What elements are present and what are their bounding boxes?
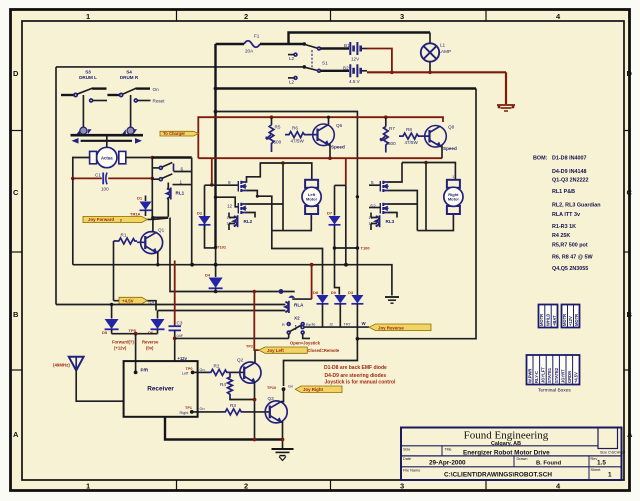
fuse F1 (244, 41, 260, 48)
svg-text:Q6: Q6 (336, 123, 343, 128)
svg-text:D1-D8 IN4007: D1-D8 IN4007 (552, 156, 586, 162)
svg-text:2: 2 (244, 482, 248, 491)
svg-text:LAMP: LAMP (439, 49, 452, 54)
wire big left box (55, 67, 57, 305)
node Q1 drop (190, 263, 194, 267)
wire right bridge top (402, 163, 455, 180)
svg-text:P/R: P/R (141, 368, 149, 373)
svg-text:RL1 P&B: RL1 P&B (552, 189, 575, 195)
node maroon R5 top (270, 115, 274, 119)
svg-text:BOM:: BOM: (533, 156, 548, 162)
node TP5 (134, 332, 138, 336)
wire right midpoint drop (425, 163, 427, 231)
battery B2 4.5V (350, 64, 360, 77)
resistor R6 (285, 132, 309, 138)
wire inner box top (216, 112, 358, 297)
transistor Q6 (313, 124, 335, 146)
drum pawls (77, 129, 81, 134)
ground (maroon) (497, 105, 515, 111)
svg-text:RLA: RLA (294, 303, 304, 308)
svg-text:2: 2 (311, 217, 313, 221)
svg-text:J2: J2 (329, 323, 333, 327)
wire RL1 coil leads (167, 183, 169, 217)
wire source row lower (247, 213, 256, 218)
capacitor C1 (73, 177, 153, 179)
svg-text:R5: R5 (275, 125, 281, 130)
label Joy Forward (83, 216, 148, 222)
svg-text:Sheet: Sheet (591, 468, 602, 472)
wire steer feed 3 (345, 158, 347, 185)
svg-text:Joy Right: Joy Right (303, 387, 324, 392)
red annotation notes (324, 365, 396, 386)
svg-text:A: A (13, 430, 19, 439)
BOM notes list (533, 156, 601, 273)
svg-text:Right: Right (180, 411, 190, 415)
svg-text:Joystick is for manual control: Joystick is for manual control (325, 380, 396, 386)
diode D5 (111, 305, 113, 319)
svg-text:R4: R4 (220, 382, 226, 387)
diode D9 (334, 295, 346, 304)
wire Q8 emitter (441, 147, 443, 159)
svg-text:T101: T101 (217, 245, 227, 250)
svg-text:Forward(?): Forward(?) (112, 340, 134, 345)
relay RL1 contact 6 (152, 167, 159, 169)
wire fuse feed (216, 43, 245, 45)
wire branch up to lamp rail (289, 33, 431, 45)
wire maroon mid rail (198, 157, 442, 159)
wire RL1-1 drop (191, 158, 193, 265)
svg-text:Joy Forward: Joy Forward (88, 217, 114, 222)
wire bridge midpoint drop (282, 163, 284, 231)
svg-text:C:\CLIENT\DRAWINGS\ROBOT.SCH: C:\CLIENT\DRAWINGS\ROBOT.SCH (444, 472, 552, 479)
svg-text:Gn: Gn (288, 385, 293, 389)
svg-text:2: 2 (452, 217, 454, 221)
svg-text:Ile: Ile (312, 323, 316, 327)
switch S4 (107, 94, 119, 96)
terminal block B (562, 305, 580, 328)
drum wheel left (80, 127, 87, 134)
lamp L1 (429, 33, 431, 44)
wire drops to drum (83, 95, 130, 127)
mosfet Q upper-right (369, 180, 389, 192)
svg-text:On: On (153, 87, 160, 92)
wire right drain upper (389, 163, 403, 183)
node pole2 (303, 65, 307, 69)
wire maroon gate drop (211, 158, 213, 185)
node right bridge midpoint (424, 161, 428, 165)
svg-text:2: 2 (244, 12, 248, 21)
switch S4 reset contact (134, 99, 137, 102)
svg-text:C: C (13, 188, 19, 197)
transistor Q3 (265, 401, 287, 423)
wire drum to motor (106, 135, 108, 147)
wire right loop (284, 89, 477, 387)
node gate12 tap (214, 196, 217, 199)
svg-text:File Name: File Name (403, 469, 420, 473)
svg-text:Terminal Boxes: Terminal Boxes (538, 388, 571, 394)
svg-text:D: D (13, 69, 19, 78)
svg-text:y: y (120, 218, 122, 222)
node diode feed (344, 263, 348, 267)
wire drain row upper (247, 163, 312, 182)
wire RL2 leads (229, 213, 235, 231)
svg-text:R6: R6 (292, 126, 298, 131)
switch S1 pole 2 lever (305, 67, 318, 70)
svg-text:D8: D8 (313, 290, 319, 295)
battery B1 12V (350, 42, 360, 55)
resistor R3 (192, 411, 223, 413)
wire box to switch pole 2 (56, 66, 303, 68)
svg-text:1: 1 (311, 175, 313, 179)
svg-text:D9: D9 (331, 290, 337, 295)
wire R4 bottom (230, 398, 255, 400)
svg-text:B2: B2 (343, 65, 349, 70)
resistor R8 (399, 133, 423, 139)
svg-text:S3: S3 (85, 70, 91, 75)
svg-text:D: D (627, 69, 633, 78)
svg-text:5: 5 (371, 180, 374, 185)
wire bottom bus (165, 417, 283, 440)
actuator motor (97, 147, 117, 167)
svg-text:500: 500 (274, 140, 282, 145)
wire R3 to Q3 base (244, 411, 270, 413)
wire +4.5V row (114, 301, 157, 311)
svg-text:4.5 V: 4.5 V (349, 79, 361, 84)
svg-text:+4.5V: +4.5V (574, 372, 579, 383)
switch S1 pole 1 lever (305, 45, 318, 49)
ground G1 (385, 297, 399, 303)
wire motor right (126, 157, 153, 159)
svg-text:Date: Date (403, 457, 411, 461)
svg-text:Actua: Actua (101, 156, 113, 161)
svg-text:JOYRT: JOYRT (560, 369, 565, 383)
svg-text:D4: D4 (205, 273, 211, 278)
diode D4 (215, 248, 217, 278)
wire +V rail down to ground (maroon) (505, 72, 507, 104)
diode D1 (145, 196, 147, 202)
wire Q6 collector (328, 117, 330, 124)
svg-text:D1-D8 are back EMF diode: D1-D8 are back EMF diode (324, 365, 387, 371)
svg-text:R2: R2 (214, 364, 220, 369)
svg-text:1.5: 1.5 (597, 459, 606, 466)
svg-text:A: A (627, 430, 633, 439)
svg-text:STATE2: STATE2 (554, 367, 559, 383)
svg-text:GRDN: GRDN (567, 371, 572, 383)
svg-text:L2: L2 (289, 79, 295, 84)
wire TP5 to receiver (135, 334, 137, 373)
svg-text:F1: F1 (254, 34, 260, 39)
wire main vertical feed (214, 44, 216, 248)
svg-text:Energizer Robot Motor Drive: Energizer Robot Motor Drive (463, 449, 550, 456)
wire Q2 emitter chain (254, 383, 257, 440)
label Joy Left (259, 347, 308, 353)
svg-text:1: 1 (608, 471, 612, 478)
svg-text:DRUM R: DRUM R (120, 75, 139, 80)
svg-text:C1: C1 (95, 173, 101, 178)
svg-text:Gn.: Gn. (200, 368, 206, 372)
terminal block A (539, 305, 558, 328)
svg-text:TP5: TP5 (129, 328, 137, 333)
svg-text:(49MHz): (49MHz) (53, 363, 70, 368)
svg-text:B1: B1 (344, 43, 350, 48)
svg-text:Motor: Motor (448, 197, 460, 202)
relay RL1 contact 1 (152, 178, 159, 180)
label Joy Reverse (369, 324, 431, 331)
svg-text:RLA ITT 3v: RLA ITT 3v (552, 212, 580, 218)
svg-text:Q3: Q3 (268, 396, 275, 401)
svg-text:Drawn: Drawn (517, 457, 528, 461)
wire steer feed 2 (D7 chain) (335, 225, 340, 295)
node fuse-switch (303, 42, 307, 46)
resistor R2 (193, 371, 208, 373)
svg-text:+12V: +12V (568, 316, 573, 326)
wire joy forward row (148, 217, 169, 219)
mosfet Q upper-left (228, 180, 247, 192)
svg-text:S1: S1 (322, 61, 328, 66)
resistor R1 (114, 238, 138, 244)
svg-text:TP1: TP1 (185, 406, 192, 410)
svg-text:STATE1: STATE1 (547, 367, 552, 383)
svg-text:(+12v): (+12v) (114, 346, 127, 351)
capacitor C3 (174, 261, 176, 326)
svg-text:Q8: Q8 (448, 125, 455, 130)
wire motor bottom loop (272, 214, 312, 231)
wire motor bus to corner (152, 156, 191, 158)
label Joy Right (295, 386, 342, 393)
wire maroon drop from mid rail (311, 265, 313, 299)
relay RL3 coil (376, 216, 379, 226)
wire gate 9 line (205, 184, 239, 186)
svg-text:D4-D9 are steering diodes: D4-D9 are steering diodes (325, 373, 387, 379)
wire Q6 emitter (329, 145, 331, 157)
svg-text:Size: Size (403, 448, 410, 452)
svg-text:R3: R3 (230, 403, 236, 408)
label +4.5V (119, 297, 147, 304)
svg-text:Left: Left (182, 371, 189, 375)
svg-text:Reset: Reset (153, 99, 166, 104)
svg-text:R7: R7 (389, 126, 395, 131)
svg-text:TR1A: TR1A (130, 212, 141, 217)
wire T101 link (205, 185, 216, 248)
svg-text:Title: Title (445, 447, 452, 451)
svg-text:L1: L1 (440, 43, 446, 48)
wire maroon top rail (198, 117, 443, 158)
svg-text:C: C (627, 188, 633, 197)
svg-text:B: B (13, 310, 19, 319)
drum travel bar with arrows (81, 140, 132, 142)
svg-text:R6, R8 47 @ 5W: R6, R8 47 @ 5W (552, 255, 594, 261)
left motor (302, 175, 321, 221)
svg-text:MOTR: MOTR (539, 314, 544, 326)
svg-text:D5: D5 (102, 330, 108, 335)
svg-text:Gn: Gn (200, 407, 205, 411)
node maroon R7 top (384, 115, 388, 119)
svg-text:L2: L2 (289, 56, 295, 61)
svg-text:R4 25K: R4 25K (552, 233, 570, 239)
svg-text:Motor: Motor (306, 197, 318, 202)
svg-text:1: 1 (86, 12, 90, 21)
drum wheel right (127, 127, 134, 134)
svg-text:1: 1 (452, 175, 454, 179)
diode D6 (157, 311, 159, 319)
svg-text:9: 9 (228, 180, 231, 185)
diode D8 (317, 295, 329, 304)
svg-text:Reverse: Reverse (142, 340, 159, 345)
svg-text:DRUM L: DRUM L (79, 75, 97, 80)
svg-text:Receiver: Receiver (147, 386, 174, 393)
svg-text:MOTR: MOTR (562, 314, 567, 326)
svg-text:Calgary, AB: Calgary, AB (491, 441, 521, 447)
svg-text:TR7: TR7 (344, 323, 351, 327)
mosfet Q lower-right (369, 203, 389, 214)
transistor Q1 (141, 232, 163, 254)
svg-text:JOYLFT: JOYLFT (541, 367, 546, 383)
svg-text:Speed: Speed (331, 145, 345, 150)
svg-text:+4.5V: +4.5V (122, 299, 134, 304)
drum bar (71, 134, 144, 137)
label To Charger (160, 131, 199, 136)
svg-text:B. Found: B. Found (536, 460, 562, 466)
right motor (444, 175, 463, 221)
relay RLA contact (279, 290, 282, 293)
wire Q1 emitter (157, 253, 158, 265)
svg-text:RL1: RL1 (176, 191, 185, 196)
node left bridge midpoint (281, 161, 285, 165)
svg-text:D7: D7 (327, 211, 333, 216)
svg-text:RL3: RL3 (386, 219, 395, 224)
node y88 (214, 87, 218, 91)
wire switch to battery B2 (321, 70, 350, 72)
svg-text:WHLD: WHLD (546, 314, 551, 326)
relay RL1 coil (167, 189, 170, 199)
svg-text:D4-D9 IN4148: D4-D9 IN4148 (552, 169, 586, 175)
svg-text:Q1: Q1 (158, 228, 165, 233)
wire Q3 emitter (281, 422, 283, 448)
svg-text:TP10: TP10 (267, 386, 276, 390)
svg-text:Q2: Q2 (237, 358, 244, 363)
svg-text:D2: D2 (197, 211, 203, 216)
svg-text:R8: R8 (406, 127, 412, 132)
svg-text:20A: 20A (245, 49, 254, 54)
svg-text:29-Apr-2000: 29-Apr-2000 (429, 460, 466, 467)
terminal block C (527, 355, 580, 394)
svg-text:Joy Left: Joy Left (267, 348, 284, 353)
svg-text:Joy Reverse: Joy Reverse (378, 325, 404, 330)
title block (401, 428, 625, 481)
svg-text:3: 3 (400, 482, 404, 491)
svg-text:C3: C3 (177, 321, 183, 326)
ground G2 (272, 449, 294, 461)
wire Q1 collector (152, 218, 154, 232)
wire motor left (73, 158, 90, 178)
svg-text:MOTR: MOTR (574, 314, 579, 326)
wire source/drain mid row (247, 191, 284, 231)
wire fuse to switch (260, 43, 303, 45)
switch S3 (61, 94, 74, 96)
svg-text:6: 6 (181, 167, 184, 172)
diode D7 (334, 185, 336, 215)
svg-text:04F: 04F (177, 334, 184, 338)
svg-text:B: B (627, 310, 633, 319)
wire switch to battery B1 (321, 47, 350, 49)
svg-text:W.PWR: W.PWR (527, 369, 532, 383)
svg-text:R1: R1 (121, 233, 127, 238)
wire right motor loop (417, 214, 453, 231)
svg-text:D3: D3 (348, 290, 354, 295)
resistor R4 (228, 372, 233, 397)
svg-text:R: R (282, 323, 285, 327)
mosfet Q lower-left (227, 203, 247, 214)
wire Q1 emitter rail to gate row (157, 264, 159, 266)
svg-text:(0v): (0v) (146, 346, 154, 351)
svg-text:S4: S4 (126, 70, 132, 75)
diode D2 (199, 216, 211, 225)
svg-text:Q4,Q5 2N3055: Q4,Q5 2N3055 (552, 266, 588, 272)
node B1/B2 join (390, 71, 394, 75)
pot R7 (385, 117, 387, 126)
svg-text:Q1-Q3 2N2222: Q1-Q3 2N2222 (552, 178, 589, 184)
wire D5-D6 join (112, 333, 158, 335)
svg-text:500: 500 (388, 141, 396, 146)
node cap left (maroon) (71, 177, 75, 181)
svg-text:Open=Joystick: Open=Joystick (290, 341, 321, 346)
relay RL2 coil (234, 216, 237, 226)
node left source jog (256, 195, 259, 198)
svg-text:12: 12 (227, 204, 233, 209)
transistor Q8 (425, 126, 447, 148)
wire gate line A (y304.5) (56, 304, 285, 306)
svg-text:47/5W: 47/5W (291, 139, 305, 144)
svg-text:100: 100 (101, 187, 109, 192)
svg-text:T100: T100 (361, 246, 371, 251)
wire right bus of actuator (151, 158, 153, 218)
svg-text:R5,R7 500 pot: R5,R7 500 pot (552, 243, 588, 249)
svg-text:TP0: TP0 (186, 367, 193, 371)
wire +12v to X2 (175, 337, 289, 339)
node C3 bottom (173, 337, 177, 341)
wire steer feed 1 (272, 231, 323, 295)
wire B2 to +V rail (maroon) (362, 70, 368, 72)
wire Q2 collector up to Joy Left (254, 350, 256, 363)
svg-text:D1: D1 (137, 196, 143, 201)
svg-text:RL2: RL2 (244, 219, 253, 224)
svg-text:TP2: TP2 (246, 345, 253, 349)
wire steer bottom row (304, 326, 369, 328)
switch S1 pole2 aux contact L2 (294, 77, 297, 80)
switch S3 reset contact (90, 99, 93, 102)
svg-text:Size C\SCH\rev: Size C\SCH\rev (600, 451, 625, 455)
switch S1 mechanical link (311, 50, 313, 69)
receiver box (124, 361, 198, 417)
wire bus y88 (216, 87, 477, 89)
wire right mid row (389, 191, 418, 231)
svg-text:X2: X2 (294, 316, 300, 321)
diode D10 (351, 295, 363, 304)
wire R1 left drop (113, 241, 115, 301)
pot R5 (271, 117, 273, 125)
svg-text:1: 1 (180, 180, 183, 185)
svg-text:RLY-C: RLY-C (534, 371, 539, 383)
wire gate line B (y310.5) (158, 310, 286, 312)
wire gate 12 line (216, 197, 239, 207)
wire left rail down (72, 178, 74, 264)
svg-text:+BAT: +BAT (552, 315, 557, 326)
svg-text:3: 3 (400, 12, 404, 21)
relay RLA coil (285, 302, 288, 312)
svg-text:Speed: Speed (443, 146, 457, 151)
wire right source row (389, 213, 398, 218)
wire lower gate row y291 (170, 218, 295, 292)
